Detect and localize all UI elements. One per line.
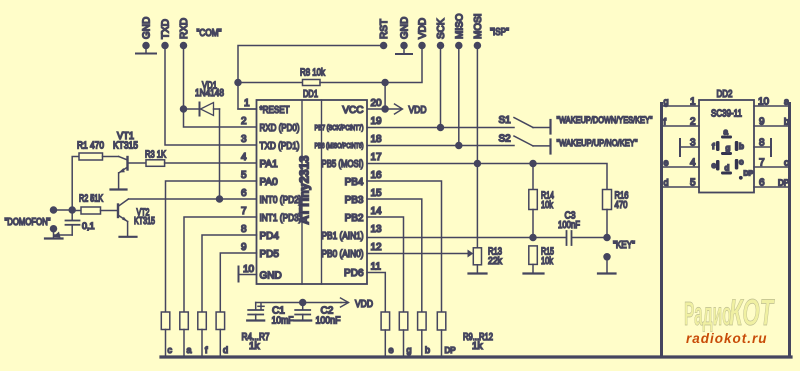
- wire VT1 emitter to ground: [118, 173, 120, 189]
- svg-text:R2 51K: R2 51K: [79, 194, 103, 205]
- wire cap to DOMOFON ground: [53, 232, 72, 238]
- svg-text:GND: GND: [260, 271, 282, 282]
- logo radiokot.ru: [686, 331, 768, 346]
- ground bar DOMOFON: [45, 237, 63, 239]
- wire pin 16 to resistor R12 column DP: [367, 181, 442, 312]
- junction VDD/R8: [382, 80, 388, 86]
- pin number 1 (DD2): [690, 97, 696, 108]
- pin number 20: [371, 98, 383, 109]
- terminal GND (COM port): [143, 43, 149, 53]
- svg-text:4: 4: [241, 152, 247, 163]
- wire DD2 pin 10: [754, 105, 788, 107]
- net label DP: [445, 346, 456, 355]
- wire DD2 pin 6: [754, 186, 788, 188]
- resistor R10 (g): [399, 312, 408, 356]
- svg-text:e: e: [389, 345, 394, 355]
- wire DD2 pin 4: [663, 166, 699, 168]
- wire VDD rail (C1-C2): [256, 302, 341, 304]
- svg-text:1k: 1k: [472, 341, 484, 352]
- label R8 10k: [300, 68, 326, 79]
- svg-text:100nF: 100nF: [316, 316, 341, 327]
- svg-text:f: f: [712, 142, 715, 151]
- svg-text:R8 10k: R8 10k: [300, 68, 326, 79]
- svg-text:VDD: VDD: [409, 105, 427, 116]
- 7-segment glyph: segment c: [735, 159, 739, 170]
- bus right vertical (segment wires to DD2): [788, 104, 791, 358]
- svg-text:R3 1K: R3 1K: [145, 150, 166, 161]
- transistor VT2: [118, 199, 129, 222]
- svg-text:6: 6: [241, 188, 247, 199]
- svg-text:DP: DP: [744, 171, 754, 178]
- svg-text:PB1 (AIN1): PB1 (AIN1): [322, 231, 364, 242]
- op-amp U1: IC DD1 ATTiny2313 box: [257, 100, 368, 284]
- label 470 (R16): [615, 200, 628, 211]
- svg-text:f: f: [664, 117, 667, 127]
- label KT315 (VT2): [134, 216, 155, 227]
- label S2: [499, 134, 512, 145]
- net label b: [425, 345, 430, 355]
- label 10k (R15): [541, 256, 554, 267]
- svg-text:PD6: PD6: [344, 268, 364, 279]
- label 1k (R4-R7): [249, 341, 261, 352]
- resistor R1: [79, 153, 119, 160]
- pin number 2: [241, 116, 247, 127]
- svg-text:DD1: DD1: [303, 89, 318, 100]
- pin name RXD (PD0): [260, 123, 300, 134]
- resistor R2: [72, 207, 118, 214]
- pin number 9 (DD2): [759, 117, 765, 128]
- pin name PB2: [345, 213, 364, 224]
- resistor R3: [128, 160, 257, 167]
- label 0,1: [82, 221, 95, 231]
- pin name PB1 (AIN1): [322, 231, 364, 242]
- resistor R15: [529, 246, 538, 272]
- pin name INT0 (PD2): [260, 195, 302, 206]
- pin 10 no-connect bar: [239, 267, 257, 282]
- label 10mF: [272, 316, 294, 327]
- label C1: [272, 306, 285, 317]
- pin number 7: [241, 206, 247, 217]
- pin 8 no-connect bar: [754, 139, 771, 156]
- label R3 1K: [145, 150, 166, 161]
- svg-text:8: 8: [759, 138, 765, 149]
- label KT315 (VT1): [113, 141, 138, 152]
- svg-text:TXD (PD1): TXD (PD1): [260, 141, 300, 152]
- pin name TXD (PD1): [260, 141, 300, 152]
- svg-text:KT315: KT315: [113, 141, 138, 152]
- ground bar VT2: [120, 236, 137, 238]
- svg-text:"WAKEUP/DOWN/YES/KEY": "WAKEUP/DOWN/YES/KEY": [557, 115, 653, 126]
- terminal GND (ISP): [401, 43, 407, 53]
- label SCK (vertical): [436, 18, 447, 39]
- junction reset/R8: [235, 80, 241, 86]
- label 1N4148: [195, 88, 224, 99]
- 7-segment glyph: segment a: [721, 136, 732, 139]
- terminal VDD: [419, 43, 425, 49]
- segment label b: [739, 142, 744, 151]
- svg-text:3: 3: [241, 134, 247, 145]
- resistor R14: [529, 164, 538, 238]
- terminal MOSI: [474, 43, 480, 49]
- ground bar VT1: [111, 188, 127, 190]
- wire pin 18 to S2: [367, 145, 514, 147]
- svg-text:PB6 (MISO/PCINT6): PB6 (MISO/PCINT6): [315, 141, 364, 150]
- net label d (DD2): [664, 178, 669, 188]
- svg-text:10k: 10k: [541, 256, 554, 267]
- wire VDD terminal to R8 node: [385, 46, 422, 83]
- svg-text:DD2: DD2: [717, 89, 733, 100]
- svg-text:7: 7: [759, 158, 765, 169]
- wire DD2 pin 9: [754, 125, 788, 127]
- svg-text:PB0 (AIN0): PB0 (AIN0): [322, 249, 364, 260]
- pin number 4 (DD2): [690, 158, 696, 169]
- svg-text:RST: RST: [379, 19, 390, 39]
- resistor R5 (a): [180, 312, 189, 356]
- pin name PB7 (SCK/PCINT7): [315, 123, 364, 132]
- pin number 3: [241, 134, 247, 145]
- label "WAKEUP/UP/NO/KEY": [557, 138, 638, 149]
- label 10k (R14): [541, 200, 554, 211]
- svg-text:PA1: PA1: [260, 159, 279, 170]
- ground bar GND COM: [136, 53, 156, 55]
- pin number 2 (DD2): [690, 117, 696, 128]
- label R13: [488, 247, 502, 258]
- junction R16/KEY: [604, 235, 610, 241]
- resistor R11 (b): [418, 312, 427, 356]
- svg-text:d: d: [725, 164, 730, 173]
- pin number 9: [241, 242, 247, 253]
- pin name PB5 (MOSI): [322, 159, 364, 170]
- wire pin 11 to resistor R9 column e: [367, 273, 385, 313]
- wire pin 20 stub: [367, 108, 385, 110]
- wire pin 9 to resistor R7 column d: [220, 253, 256, 312]
- capacitor C1 (electrolytic): [248, 303, 264, 320]
- svg-text:DP: DP: [445, 346, 456, 355]
- svg-text:PD5: PD5: [260, 249, 280, 260]
- VDD arrow at pin 20: [385, 104, 402, 114]
- net label e: [389, 345, 394, 355]
- label "COM": [197, 28, 222, 39]
- label VT2: [137, 208, 150, 219]
- label R4...R7: [242, 332, 270, 343]
- wire pin 13 / KEY line: [367, 237, 607, 239]
- label MISO (vertical): [454, 13, 465, 39]
- svg-text:470: 470: [615, 200, 628, 211]
- label R2 51K: [79, 194, 103, 205]
- svg-text:20: 20: [371, 98, 383, 109]
- segment label DP: [744, 171, 754, 178]
- svg-text:2: 2: [690, 117, 696, 128]
- label "DOMOFON": [5, 217, 51, 228]
- svg-text:c: c: [739, 158, 744, 167]
- svg-text:3: 3: [690, 138, 696, 149]
- svg-text:S2: S2: [499, 134, 512, 145]
- svg-text:9: 9: [241, 242, 247, 253]
- label 1k (R9-R12): [472, 341, 484, 352]
- ground bar R13: [469, 272, 487, 274]
- svg-text:b: b: [425, 345, 430, 355]
- wire VD1 anode down to pin 6 net: [219, 109, 221, 199]
- pin number 14: [371, 206, 383, 217]
- wire MOSI down to pin 17 line: [476, 46, 478, 164]
- pin number 5 (DD2): [690, 178, 696, 189]
- wire pin 12 wiper arrow: [367, 250, 473, 258]
- label R1 470: [77, 141, 104, 152]
- svg-text:c: c: [168, 345, 173, 355]
- pin name PA1: [260, 159, 279, 170]
- segment label a: [724, 128, 729, 137]
- svg-text:c: c: [784, 158, 789, 168]
- terminal MISO: [456, 43, 462, 49]
- svg-text:5: 5: [241, 170, 247, 181]
- svg-text:14: 14: [371, 206, 383, 217]
- svg-text:8: 8: [241, 224, 247, 235]
- segment label e: [712, 161, 717, 170]
- svg-text:PD4: PD4: [260, 231, 280, 242]
- net label d: [223, 345, 228, 355]
- pin name PD6: [344, 268, 364, 279]
- svg-text:10mF: 10mF: [272, 316, 294, 327]
- net label e (DD2): [664, 158, 669, 168]
- ground bar R15: [524, 272, 544, 274]
- label R16: [615, 191, 629, 202]
- wire DD2 pin 5: [663, 186, 699, 188]
- pin number 6 (DD2): [759, 178, 765, 189]
- svg-text:PB5 (MOSI): PB5 (MOSI): [322, 159, 364, 170]
- pin number 3 (DD2): [690, 138, 696, 149]
- segment label f: [712, 142, 715, 151]
- svg-text:22k: 22k: [488, 256, 503, 267]
- label R14: [541, 191, 554, 202]
- wire RXD to pin 2: [184, 46, 257, 128]
- svg-text:PB7 (SCK/PCINT7): PB7 (SCK/PCINT7): [315, 123, 364, 132]
- label C3: [565, 211, 576, 222]
- svg-text:2: 2: [241, 116, 247, 127]
- svg-text:RXD (PD0): RXD (PD0): [260, 123, 300, 134]
- svg-text:PA0: PA0: [260, 177, 279, 188]
- resistor R7 (d): [216, 312, 225, 356]
- pin number 17: [371, 152, 383, 163]
- svg-text:GND: GND: [400, 17, 411, 39]
- net label a: [187, 345, 192, 355]
- svg-text:g: g: [407, 345, 412, 355]
- 7-segment glyph: segment b: [735, 141, 739, 151]
- svg-text:S1: S1: [499, 115, 512, 126]
- label S1: [499, 115, 512, 126]
- svg-text:16: 16: [371, 170, 383, 181]
- svg-text:1N4148: 1N4148: [195, 88, 224, 99]
- 7-segment glyph: segment g: [721, 152, 732, 155]
- label GND ISP (vertical): [400, 17, 411, 39]
- 7-segment glyph: DP dot: [739, 176, 743, 180]
- segment label g: [726, 144, 731, 153]
- terminal TXD: [162, 43, 168, 49]
- svg-text:1: 1: [690, 97, 696, 108]
- pin number 7 (DD2): [759, 158, 765, 169]
- svg-text:PB2: PB2: [345, 213, 364, 224]
- pin name PB6 (MISO/PCINT6): [315, 141, 364, 150]
- wire pin 7 to resistor R5 column a: [184, 217, 257, 312]
- svg-text:e: e: [664, 158, 669, 168]
- svg-text:a: a: [784, 97, 789, 107]
- svg-text:PB4: PB4: [345, 177, 364, 188]
- pin number 10 (DD2): [758, 97, 770, 108]
- label ATTiny2313 (vertical): [298, 155, 312, 224]
- junction C2/VDD rail: [300, 300, 306, 306]
- net label f (DD2): [664, 117, 667, 127]
- net label DP (DD2): [778, 179, 789, 188]
- svg-text:19: 19: [371, 116, 383, 127]
- label TXD (vertical): [161, 19, 172, 39]
- svg-text:f: f: [205, 345, 208, 355]
- svg-text:1k: 1k: [249, 341, 261, 352]
- svg-text:VDD: VDD: [355, 299, 373, 310]
- junction VD1/pin6: [217, 196, 223, 202]
- pin number 8: [241, 224, 247, 235]
- label DD2: [717, 89, 733, 100]
- pin name INT1 (PD3): [260, 213, 302, 224]
- svg-text:17: 17: [371, 152, 383, 163]
- segment label d: [725, 164, 730, 173]
- resistor R4 (c): [161, 312, 170, 356]
- svg-text:b: b: [784, 117, 789, 127]
- diode VD1: [184, 103, 220, 116]
- svg-text:e: e: [712, 161, 717, 170]
- label MOSI (vertical): [473, 13, 484, 39]
- svg-text:MOSI: MOSI: [473, 13, 484, 39]
- label RXD (vertical): [179, 18, 190, 39]
- wire DOMOFON to node: [54, 209, 73, 211]
- junction R14/R15/KEY: [530, 235, 536, 241]
- ground bar C1: [247, 319, 264, 321]
- svg-text:SC39-11: SC39-11: [711, 109, 742, 120]
- pin name PD5: [260, 249, 280, 260]
- svg-text:b: b: [739, 142, 744, 151]
- svg-text:d: d: [664, 178, 669, 188]
- svg-text:10k: 10k: [541, 200, 554, 211]
- resistor R6 (f): [198, 312, 207, 356]
- pin name PB3: [345, 195, 364, 206]
- junction R14/pin17: [530, 161, 536, 167]
- junction DOMOFON node: [69, 207, 75, 213]
- label VDD bottom: [355, 299, 373, 310]
- wire RST to reset node: [238, 46, 384, 110]
- svg-text:"COM": "COM": [197, 28, 222, 39]
- net label g: [407, 345, 412, 355]
- svg-text:g: g: [664, 97, 669, 107]
- wire pin 15 to resistor R11 column b: [367, 199, 422, 312]
- svg-text:d: d: [223, 345, 228, 355]
- svg-text:18: 18: [371, 134, 383, 145]
- label "WAKEUP/DOWN/YES/KEY": [557, 115, 653, 126]
- pin 1 stub: [238, 108, 257, 110]
- pin number 11: [371, 262, 382, 273]
- svg-text:Радио: Радио: [684, 297, 732, 333]
- label GND (vertical): [142, 17, 153, 39]
- svg-text:INT0 (PD2): INT0 (PD2): [260, 195, 302, 206]
- svg-text:DP: DP: [778, 179, 789, 188]
- svg-text:15: 15: [371, 188, 383, 199]
- svg-text:a: a: [724, 128, 729, 137]
- transistor VT1: [119, 157, 128, 173]
- label R9...R12: [463, 332, 493, 343]
- svg-text:"KEY": "KEY": [613, 240, 635, 251]
- svg-text:INT1 (PD3): INT1 (PD3): [260, 213, 302, 224]
- wire DD2 pin 2: [663, 125, 699, 127]
- switch S2: [514, 136, 551, 154]
- label 22k (R13): [488, 256, 503, 267]
- wire R8 node down to pin 20: [384, 83, 386, 110]
- svg-text:11: 11: [371, 262, 382, 273]
- label VDD (vertical): [418, 18, 429, 39]
- pin number 5: [241, 170, 247, 181]
- svg-text:10: 10: [758, 97, 770, 108]
- svg-text:R1 470: R1 470: [77, 141, 104, 152]
- net label f: [205, 345, 208, 355]
- 7-segment glyph: segment f: [716, 141, 720, 151]
- svg-text:12: 12: [371, 242, 383, 253]
- svg-text:КОТ: КОТ: [729, 292, 775, 333]
- ground bar KEY: [598, 272, 616, 274]
- 7-segment glyph: segment e: [716, 160, 720, 171]
- pin name PB0 (AIN0): [322, 249, 364, 260]
- pin number 1: [244, 98, 250, 109]
- label SC39-11: [711, 109, 742, 120]
- bus left vertical (segment wires to DD2): [660, 104, 663, 358]
- wire TXD to pin 3: [165, 46, 257, 146]
- wire MISO to pin 18 line: [458, 46, 460, 146]
- pin name PB4: [345, 177, 364, 188]
- terminal RXD: [181, 43, 187, 49]
- terminal RST: [381, 43, 387, 49]
- wire node up to R1: [72, 157, 79, 211]
- net label c (DD2): [784, 158, 789, 168]
- pin name PA0: [260, 177, 279, 188]
- pin name PD4: [260, 231, 280, 242]
- junction pin20/VDD: [382, 106, 388, 112]
- net label b (DD2): [784, 117, 789, 127]
- pin number 4: [241, 152, 247, 163]
- capacitor C2: [295, 303, 310, 320]
- pin 3 no-connect bar: [680, 139, 699, 156]
- svg-text:a: a: [187, 345, 192, 355]
- wire pin 17 net: [367, 164, 607, 190]
- label VDD at pin 20: [409, 105, 427, 116]
- svg-text:9: 9: [759, 117, 765, 128]
- label VD1: [202, 81, 217, 92]
- pin name VCC: [342, 105, 363, 116]
- svg-text:GND: GND: [142, 17, 153, 39]
- label "ISP": [490, 27, 509, 38]
- VDD arrow bottom: [341, 298, 349, 307]
- terminal KEY: [604, 254, 610, 272]
- resistor R8: [238, 80, 385, 86]
- svg-text:KT315: KT315: [134, 216, 155, 227]
- svg-text:VDD: VDD: [418, 18, 429, 39]
- svg-text:RXD: RXD: [179, 18, 190, 39]
- pin number 18: [371, 134, 383, 145]
- label 100nF (C2): [316, 316, 341, 327]
- net label c: [168, 345, 173, 355]
- wire pin 19 to S1: [367, 127, 514, 129]
- wire VT2 collector to pin 6: [129, 198, 257, 200]
- svg-text:"ISP": "ISP": [490, 27, 509, 38]
- junction SCK/pin19: [438, 125, 444, 131]
- svg-text:TXD: TXD: [161, 19, 172, 39]
- ground bar C2: [294, 319, 311, 321]
- pin name *RESET: [260, 105, 290, 116]
- label 100nF (C3): [558, 220, 580, 231]
